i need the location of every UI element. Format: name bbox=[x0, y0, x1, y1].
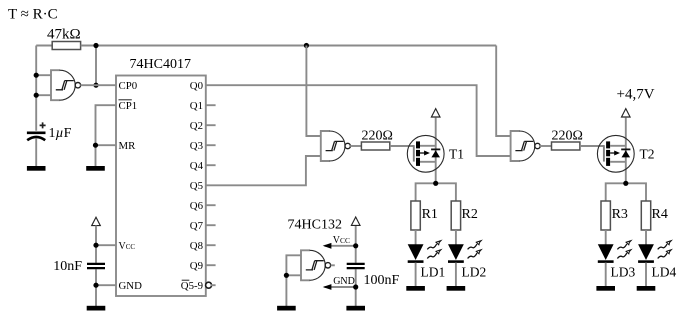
svg-text:T1: T1 bbox=[449, 147, 464, 162]
junction: Vcc tap bbox=[353, 243, 358, 248]
svg-text:Q1: Q1 bbox=[190, 100, 203, 112]
power arrow above 100nF bbox=[351, 217, 360, 225]
wire: LD3 to ground bbox=[605, 263, 607, 287]
junction: GND pin bbox=[93, 283, 98, 288]
wire: 220 Ohm to T2 gate bbox=[580, 145, 604, 147]
svg-text:R4: R4 bbox=[652, 207, 668, 222]
wire: Q5 net to IC2B lower input bbox=[206, 156, 321, 185]
svg-text:74HC132: 74HC132 bbox=[288, 218, 342, 233]
svg-text:VCC: VCC bbox=[119, 241, 136, 252]
svg-text:Q2: Q2 bbox=[190, 120, 203, 132]
svg-text:LD3: LD3 bbox=[611, 265, 636, 280]
junction: IC2D lower input bbox=[284, 273, 289, 278]
svg-text:LD2: LD2 bbox=[462, 265, 487, 280]
power arrow above 10nF bbox=[92, 217, 101, 225]
LED LD4 light arrows bbox=[658, 241, 672, 250]
junction: GND tap bbox=[353, 284, 358, 289]
svg-text:Q5: Q5 bbox=[190, 180, 203, 192]
resistor 47kOhm oscillator bbox=[52, 42, 80, 50]
LED LD3 bbox=[598, 244, 614, 263]
wire: T1 source rail to R1 R2 bbox=[416, 183, 456, 201]
wire: Q7 stub bbox=[206, 224, 216, 226]
svg-text:100nF: 100nF bbox=[364, 273, 400, 288]
svg-text:T2: T2 bbox=[640, 147, 655, 162]
svg-text:74HC4017: 74HC4017 bbox=[130, 57, 191, 72]
ground: below LD2 bbox=[447, 286, 466, 291]
wire: Q0 net to IC2C lower input bbox=[206, 85, 511, 156]
svg-text:R3: R3 bbox=[612, 207, 628, 222]
wire: IC2D output stub bbox=[331, 264, 335, 266]
pin label Q5-9 (inverted) bbox=[181, 280, 203, 292]
capacitor C3 10nF bbox=[87, 264, 105, 268]
resistor R1 bbox=[411, 201, 420, 230]
svg-text:1µF: 1µF bbox=[49, 126, 72, 141]
wire: top rail from 47k to T2 gate branch bbox=[81, 46, 511, 137]
transistor T1 mosfet bbox=[407, 109, 444, 184]
wire: R2 to LD2 bbox=[455, 230, 457, 245]
svg-text:GND: GND bbox=[119, 280, 143, 292]
svg-text:CP1: CP1 bbox=[119, 100, 138, 112]
wire: Q3 stub bbox=[206, 144, 216, 146]
GND supply arrow to 74HC132 package bbox=[323, 284, 356, 290]
schmitt NAND gate IC2A (74HC132) oscillator bbox=[51, 70, 81, 100]
schmitt NAND gate IC2C (74HC132) driver 2 bbox=[511, 131, 541, 161]
ground: below IC2D inputs bbox=[277, 306, 296, 311]
svg-text:MR: MR bbox=[119, 140, 137, 152]
wire: LD1 to ground bbox=[415, 263, 417, 287]
svg-text:VCC: VCC bbox=[333, 235, 350, 246]
svg-text:Q8: Q8 bbox=[190, 240, 203, 252]
capacitor C2 100nF bbox=[347, 264, 365, 268]
pin label CP1 (inverted) bbox=[119, 100, 138, 112]
svg-text:+4,7V: +4,7V bbox=[617, 86, 655, 102]
svg-text:Q4: Q4 bbox=[190, 160, 204, 172]
LED LD1 light arrows bbox=[427, 241, 441, 250]
LED LD4 bbox=[638, 244, 654, 263]
wire: gate U1A input stubs bbox=[36, 75, 51, 95]
svg-text:10nF: 10nF bbox=[53, 259, 82, 274]
svg-text:Q9: Q9 bbox=[190, 260, 203, 272]
LED LD2 light arrows bbox=[468, 241, 482, 250]
ground: below LD4 bbox=[637, 286, 656, 291]
wire: IC2C output to 220 Ohm resistor bbox=[540, 145, 552, 147]
Vcc supply arrow to 74HC132 package bbox=[323, 243, 356, 249]
junction: top rail at x96 bbox=[93, 43, 98, 48]
ground: below 100nF bbox=[346, 306, 365, 311]
LED LD2 bbox=[448, 244, 464, 263]
junction: T1 rail bbox=[433, 181, 438, 186]
LED LD3 light arrows bbox=[617, 241, 631, 250]
schmitt NAND gate IC2B (74HC132) driver 1 bbox=[321, 131, 351, 161]
wire: IC2A output to CP0 bbox=[80, 84, 116, 86]
wire: LD4 to ground bbox=[645, 263, 647, 287]
wire: supply vertical through 100nF bbox=[355, 226, 357, 306]
svg-text:Q0: Q0 bbox=[190, 80, 203, 92]
junction: MR join bbox=[93, 143, 98, 148]
svg-text:LD1: LD1 bbox=[421, 265, 446, 280]
schmitt NAND gate IC2D (74HC132) spare, inputs grounded bbox=[301, 250, 331, 280]
svg-text:R1: R1 bbox=[422, 207, 438, 222]
resistor 220 Ohm (T2 gate) bbox=[552, 142, 580, 150]
wire: R1 to LD1 bbox=[415, 230, 417, 245]
junction: feedback to upper input bbox=[34, 73, 39, 78]
wire: R4 to LD4 bbox=[645, 230, 647, 245]
wire: Q4 stub bbox=[206, 164, 216, 166]
wire: Q8 stub bbox=[206, 244, 216, 246]
wire: Q1 stub bbox=[206, 104, 216, 106]
wire: IC2B output to 220 Ohm resistor bbox=[350, 145, 361, 147]
ground: below LD3 bbox=[596, 286, 615, 291]
svg-text:Q7: Q7 bbox=[190, 220, 204, 232]
wire: Q2 stub bbox=[206, 124, 216, 126]
svg-text:47kΩ: 47kΩ bbox=[47, 27, 81, 43]
wire: 47k right to oscillator output vertical bbox=[95, 46, 97, 86]
wire: left feedback vertical bbox=[36, 46, 52, 131]
svg-text:GND: GND bbox=[333, 276, 355, 287]
ground: below 10nF bbox=[87, 306, 106, 311]
transistor T2 mosfet bbox=[597, 109, 634, 184]
wire: CP1 and MR to ground bbox=[96, 105, 117, 166]
junction: Vcc pin bbox=[93, 243, 98, 248]
resistor R3 bbox=[601, 201, 610, 230]
resistor R4 bbox=[641, 201, 650, 230]
LED LD1 bbox=[408, 244, 424, 263]
ground: below LD1 bbox=[406, 286, 425, 291]
IC U1 74HC4017 box bbox=[116, 76, 206, 297]
pin bubble Q5-9 bbox=[206, 282, 216, 288]
wire: 220 Ohm to T1 gate bbox=[390, 145, 414, 147]
resistor R2 bbox=[451, 201, 460, 230]
junction: top rail at x306 bbox=[304, 43, 309, 48]
wire: Vcc pin decoupling vertical bbox=[96, 226, 116, 307]
ground: below MR wire bbox=[86, 166, 105, 171]
svg-text:LD4: LD4 bbox=[652, 265, 677, 280]
svg-text:Q5-9: Q5-9 bbox=[181, 280, 203, 292]
junction: T2 rail bbox=[623, 181, 628, 186]
svg-text:Q6: Q6 bbox=[190, 200, 204, 212]
wire: IC2D inputs tied to ground bbox=[286, 255, 301, 306]
svg-text:Q3: Q3 bbox=[190, 140, 203, 152]
ground: below C1 bbox=[27, 166, 46, 171]
wire: Q9 stub bbox=[206, 264, 216, 266]
wire: LD2 to ground bbox=[455, 263, 457, 287]
capacitor C1 1uF polarized bbox=[27, 122, 46, 166]
svg-text:T ≈ R·C: T ≈ R·C bbox=[8, 7, 58, 23]
wire: top rail drop to IC2B upper input bbox=[306, 46, 320, 137]
svg-text:R2: R2 bbox=[462, 207, 478, 222]
wire: R3 to LD3 bbox=[605, 230, 607, 245]
junction: oscillator output node bbox=[93, 83, 98, 88]
wire: T2 source rail to R3 R4 bbox=[606, 183, 646, 201]
resistor 220 Ohm (T1 gate) bbox=[361, 142, 389, 150]
wire: Q6 stub bbox=[206, 204, 216, 206]
svg-text:CP0: CP0 bbox=[119, 80, 138, 92]
junction: feedback to lower input bbox=[34, 93, 39, 98]
